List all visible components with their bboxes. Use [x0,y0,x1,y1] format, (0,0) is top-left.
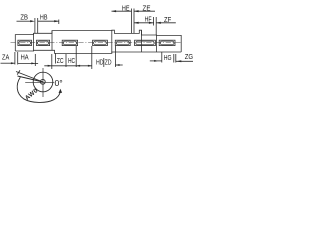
svg-text:HD: HD [96,58,104,67]
pill P5 [115,40,130,45]
svg-text:ZE: ZE [143,3,151,12]
dimension HF [134,17,156,35]
end view circle [16,68,62,102]
section boundary C/E [111,30,113,53]
pill P4 [93,40,108,45]
end view horizontal centerline [25,81,54,83]
svg-text:ZA: ZA [2,53,10,62]
svg-text:HC: HC [68,56,75,65]
svg-text:HF: HF [145,15,152,24]
section boundary F/G [156,35,158,52]
section boundary A/B [33,33,35,51]
dimension ZA [1,52,18,65]
shaft bottom profile [15,50,181,53]
dimension ZG [176,60,193,62]
pill P7 [159,40,175,45]
dimension HA [18,54,38,66]
dimension ZF [156,22,176,24]
svg-text:ZG: ZG [185,52,193,61]
wedge line 2 [18,76,44,82]
dimension ZD [115,46,122,67]
section boundary E/F [141,30,143,52]
svg-text:HE: HE [122,3,130,12]
dimension HC [76,46,92,67]
svg-text:ZC: ZC [57,56,64,65]
dimension HB [38,20,59,25]
svg-text:ZB: ZB [20,13,28,22]
svg-text:HG: HG [164,53,172,62]
dimension HD [92,46,104,69]
shaft top profile [15,30,181,52]
dimension ZC [44,54,92,70]
svg-text:ZD: ZD [105,58,112,67]
pill P6 [135,40,156,45]
svg-text:HB: HB [40,13,48,22]
end view vertical centerline [42,68,44,97]
dimension ZE [134,10,155,12]
svg-text:ZF: ZF [164,15,171,24]
wedge end tick [17,70,20,74]
svg-text:0°: 0° [55,78,63,88]
dimension HE [112,9,135,34]
dimension HG [150,52,176,63]
pill P3 [62,40,77,45]
wedge line 1 [16,72,43,83]
pill P1 [18,40,32,45]
section boundary B/C [51,31,53,51]
pill P2 [37,40,50,45]
svg-text:HA: HA [21,53,30,62]
centerline [11,42,182,44]
rotation arc [17,77,60,102]
dimension ZB [17,18,38,33]
